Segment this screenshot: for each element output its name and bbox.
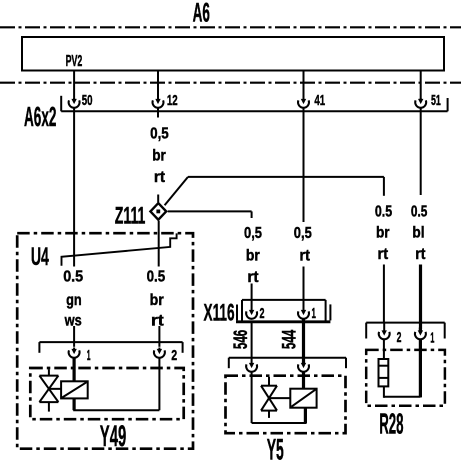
svg-text:br: br xyxy=(376,224,390,241)
wire pin 50 down to U4 xyxy=(73,108,75,267)
component box R28 (dash-dot) xyxy=(366,350,445,406)
svg-text:rt: rt xyxy=(151,312,164,329)
wire into Z111 xyxy=(157,195,159,203)
svg-text:Z111: Z111 xyxy=(115,202,146,229)
svg-text:A6x2: A6x2 xyxy=(24,101,56,132)
svg-text:2: 2 xyxy=(397,329,402,346)
wire Y49 up to pin 2 xyxy=(158,358,160,411)
svg-text:ws: ws xyxy=(64,312,82,329)
wire: dash-dot boundary line of control unit A6 (top) xyxy=(0,26,461,28)
R28 connector bracket xyxy=(366,322,445,324)
Y5 pin right socket xyxy=(302,358,305,364)
svg-text:41: 41 xyxy=(314,92,325,109)
svg-text:0.5: 0.5 xyxy=(147,269,166,286)
svg-text:X116: X116 xyxy=(204,300,235,326)
wire rail corner down xyxy=(383,177,385,196)
wire corner down to X116 xyxy=(251,211,253,218)
wire pin 51 down xyxy=(420,108,422,195)
X116 pin 2 socket xyxy=(251,301,253,311)
svg-text:br: br xyxy=(150,292,164,309)
svg-text:gn: gn xyxy=(66,292,82,309)
wire R28 pin1 down (bold) xyxy=(419,339,422,397)
svg-text:0,5: 0,5 xyxy=(150,125,169,142)
svg-text:rt: rt xyxy=(154,169,166,186)
svg-text:bl: bl xyxy=(412,224,424,241)
connector X116 bold base xyxy=(236,320,330,323)
svg-text:U4: U4 xyxy=(31,244,49,271)
valve-coil link Y5 xyxy=(269,397,290,399)
svg-text:br: br xyxy=(152,148,166,165)
valve symbol Y5 xyxy=(268,377,270,386)
svg-text:546: 546 xyxy=(231,330,252,349)
svg-text:0.5: 0.5 xyxy=(375,204,392,221)
svg-text:0.5: 0.5 xyxy=(411,204,428,221)
connector X116 left tick xyxy=(236,305,238,321)
wire horizontal rail to R28 xyxy=(188,176,384,178)
node Z111 diamond xyxy=(150,203,166,220)
solenoid coil Y49 xyxy=(61,381,88,398)
wire stub above X116 pin 2 xyxy=(251,284,253,300)
Y5 connector bracket xyxy=(229,357,346,359)
svg-text:PV2: PV2 xyxy=(66,53,83,70)
Y49 connector bracket xyxy=(39,341,182,343)
component box U4 (dash-dot) xyxy=(17,233,193,449)
wire: dash-dot boundary line of control unit A6 (bottom) xyxy=(0,82,461,84)
valve symbol Y49 xyxy=(48,369,50,375)
wire R28 bottom run xyxy=(384,396,421,398)
connector X116 right tick xyxy=(329,304,331,320)
Y49 pin 1 socket xyxy=(73,348,75,350)
svg-text:0,5: 0,5 xyxy=(294,225,312,242)
pin 12 socket xyxy=(157,98,159,100)
wire pin 12 stub xyxy=(157,108,159,118)
svg-text:A6: A6 xyxy=(193,0,210,27)
U4 internal diagonal separator xyxy=(62,233,177,265)
svg-text:rt: rt xyxy=(415,246,426,263)
valve-coil link Y49 xyxy=(49,388,61,390)
R28 pin 1 socket xyxy=(419,328,422,332)
component box Y49 (dash-dot) xyxy=(30,368,183,419)
wire resistor down xyxy=(383,386,385,398)
svg-text:2: 2 xyxy=(171,347,177,364)
wire to R28 pin2 xyxy=(383,265,385,323)
wire Y5 coil down (bold) xyxy=(304,408,307,424)
pin 50 socket xyxy=(73,98,75,100)
wire to Y49 pin 2 xyxy=(158,326,160,347)
pin 51 socket xyxy=(420,98,422,100)
op-amp-box: control unit internal block PV2 rectangle xyxy=(22,37,444,71)
wire Y5 up to left pin xyxy=(251,372,253,423)
wire to X116 pin 1 xyxy=(303,267,305,300)
svg-text:544: 544 xyxy=(279,330,300,350)
connector X116 outline xyxy=(242,299,326,301)
svg-text:2: 2 xyxy=(260,305,265,322)
connector A6x2 rail xyxy=(61,110,447,112)
svg-text:1: 1 xyxy=(430,330,434,347)
svg-text:rt: rt xyxy=(247,269,259,286)
svg-text:1: 1 xyxy=(87,347,91,364)
wire from PV2 to pin 51 xyxy=(420,71,422,101)
connector A6x2 right tick xyxy=(447,98,449,111)
svg-text:Y5: Y5 xyxy=(267,433,284,464)
svg-text:rt: rt xyxy=(378,246,389,263)
svg-text:br: br xyxy=(246,248,260,265)
wire to R28 pin1 (bold) xyxy=(419,265,422,330)
wire from PV2 to pin 41 xyxy=(303,71,305,101)
wire R28 pin2 to resistor xyxy=(383,339,385,359)
wire pin 41 down xyxy=(303,108,305,222)
solenoid coil Y5 xyxy=(290,389,316,408)
Y5 pin left socket xyxy=(251,357,253,364)
wire coil down xyxy=(72,398,75,410)
svg-text:R28: R28 xyxy=(379,409,403,441)
wire Y5 bottom run xyxy=(252,422,307,424)
wire from PV2 to pin 12 xyxy=(157,71,159,101)
wire Y49 bottom run xyxy=(73,409,159,411)
wire X116 pin1 down to Y5 (bold) xyxy=(302,319,305,359)
wire Z111 to X116 horizontal xyxy=(168,210,252,212)
X116 pin 1 socket xyxy=(303,301,305,311)
connector A6x2 left tick xyxy=(60,96,62,112)
svg-text:Y49: Y49 xyxy=(100,420,126,453)
svg-text:51: 51 xyxy=(431,92,441,109)
wire to Y49 pin 1 xyxy=(73,326,75,347)
svg-text:0.5: 0.5 xyxy=(63,269,83,286)
wire Z111 diagonal branch xyxy=(165,177,188,205)
svg-text:12: 12 xyxy=(167,92,178,109)
wire from PV2 to pin 50 xyxy=(73,71,75,101)
Y49 pin 2 socket xyxy=(158,348,160,350)
pin 41 socket xyxy=(303,98,305,100)
wire Y5 pin right to coil (bold) xyxy=(302,372,305,389)
wire Y49 pin1 to coil xyxy=(72,358,75,382)
svg-text:0,5: 0,5 xyxy=(244,225,262,242)
svg-text:50: 50 xyxy=(82,92,93,109)
svg-text:rt: rt xyxy=(300,248,311,265)
component box Y5 (dash-dot) xyxy=(226,376,346,434)
wire Z111 down into U4 xyxy=(158,221,160,267)
resistor R28 element xyxy=(379,359,389,386)
wire X116 pin2 down to Y5 xyxy=(251,323,253,359)
R28 pin 2 socket xyxy=(383,322,385,331)
svg-text:1: 1 xyxy=(312,305,316,322)
